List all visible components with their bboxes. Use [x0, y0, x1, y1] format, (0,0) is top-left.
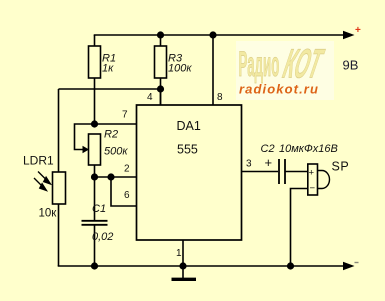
potentiometer R2 — [89, 134, 101, 165]
R2 wiper wire — [75, 124, 95, 150]
svg-text:8: 8 — [217, 92, 223, 103]
resistor R1 — [94, 35, 96, 46]
svg-text:6: 6 — [124, 190, 130, 201]
speaker SP — [308, 164, 318, 195]
svg-text:3: 3 — [246, 159, 252, 170]
wire pin 6 — [111, 177, 137, 206]
svg-text:+: + — [355, 25, 361, 36]
junction dot speaker return to rail — [287, 262, 294, 269]
ground symbol — [182, 266, 184, 278]
junction dot top rail above R3 — [157, 31, 164, 38]
svg-text:555: 555 — [177, 143, 198, 157]
svg-text:C2: C2 — [261, 143, 275, 155]
capacitor C1 — [82, 220, 108, 222]
svg-text:4: 4 — [147, 92, 153, 103]
svg-text:Радио: Радио — [239, 44, 280, 84]
svg-text:2: 2 — [124, 164, 130, 175]
LDR1 light arrow 1 — [38, 172, 51, 185]
junction dot C1 to rail — [91, 262, 98, 269]
junction dot threshold node left — [91, 173, 98, 180]
svg-text:−: − — [310, 183, 316, 194]
capacitor C2 — [278, 159, 280, 184]
svg-text:SP: SP — [332, 160, 350, 174]
power 0V terminal arrow — [343, 262, 355, 270]
power +9V terminal arrow — [343, 31, 355, 39]
svg-text:+: + — [265, 155, 273, 170]
R2 wiper arrowhead — [83, 146, 90, 153]
svg-text:1: 1 — [176, 248, 182, 259]
wire speaker return — [291, 189, 308, 267]
junction dot pin4 node — [157, 85, 164, 92]
LDR1 light arrow 2 — [34, 178, 47, 191]
photoresistor LDR1 — [53, 172, 66, 204]
svg-text:+: + — [309, 168, 315, 179]
wire pin 8 — [212, 35, 214, 105]
resistor R3 — [160, 35, 162, 46]
wire pin 3 output — [242, 171, 279, 173]
svg-text:R2: R2 — [104, 129, 118, 141]
junction dot threshold node right — [107, 173, 114, 180]
wire reset node: pin4 horizontal to LDR branch — [59, 88, 161, 90]
svg-text:7: 7 — [122, 110, 128, 121]
wire pin 2 — [95, 176, 138, 178]
junction dot pin1 to rail — [179, 262, 186, 269]
svg-text:0,02: 0,02 — [92, 231, 113, 243]
svg-text:DA1: DA1 — [177, 119, 201, 133]
wire left branch down to LDR1 — [58, 89, 60, 172]
junction dot top rail above pin 8 — [209, 31, 216, 38]
junction dot R1/R2/wiper/pin7 — [91, 120, 98, 127]
wire pin 7 — [95, 123, 138, 125]
svg-text:LDR1: LDR1 — [23, 154, 54, 168]
wire bottom 0V rail — [58, 265, 344, 267]
svg-text:radiokot.ru: radiokot.ru — [239, 82, 319, 97]
svg-text:10к: 10к — [39, 208, 58, 220]
op-amp/timer DA1 555 box — [137, 105, 242, 240]
svg-text:1к: 1к — [102, 63, 114, 75]
wire top +9V rail — [94, 34, 344, 36]
wire pin 1 — [182, 240, 184, 266]
svg-text:500к: 500к — [104, 146, 128, 158]
wire pin 4 drop — [160, 89, 162, 105]
svg-text:9В: 9В — [343, 58, 359, 73]
svg-text:100к: 100к — [168, 63, 192, 75]
svg-text:C1: C1 — [92, 203, 106, 215]
wire C1 top lead — [94, 177, 96, 220]
label - (gray) at 0V arrow — [355, 262, 359, 263]
watermark box — [236, 41, 334, 100]
svg-text:10мкФх16В: 10мкФх16В — [279, 143, 338, 155]
